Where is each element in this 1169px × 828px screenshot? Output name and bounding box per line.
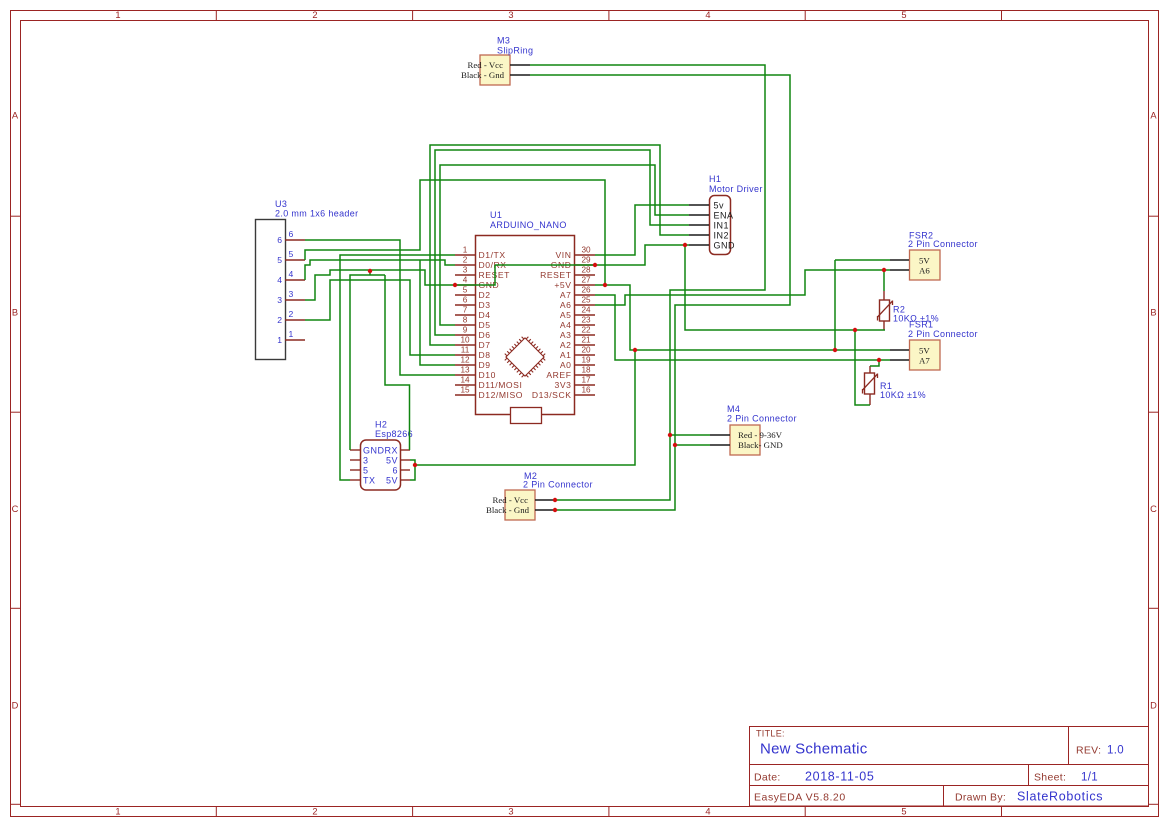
wire M4 pin2 Black [675,444,710,446]
junction M2 pin2 [553,508,557,512]
wire 5V rail down to H2.5V junction [415,350,635,465]
U3 pin 2 [285,319,305,321]
resistor R2 [878,291,893,330]
svg-text:A3: A3 [560,330,572,340]
M2 pin 1 [535,499,555,501]
svg-text:22: 22 [581,326,591,335]
U1 pin 1 D1/TX [455,254,475,256]
U3 pin 4 [285,279,305,281]
svg-text:Esp8266: Esp8266 [375,429,413,439]
svg-text:A1: A1 [560,350,572,360]
svg-text:D8: D8 [479,350,491,360]
wire U1.D6 to H1.IN1 [435,150,689,335]
svg-text:ARDUINO_NANO: ARDUINO_NANO [490,220,567,230]
svg-text:8: 8 [463,316,468,325]
U3 pin 3 [285,299,305,301]
H2 pin 5 left [350,469,360,471]
U1 pin 7 D4 [455,314,475,316]
svg-text:M3: M3 [497,36,510,46]
M3 pin 1 [510,64,530,66]
svg-text:Date:: Date: [754,772,781,784]
connector M2 2 Pin Connector [505,490,535,520]
junction GND branch [368,269,372,273]
U1 pin 4 GND [455,284,475,286]
svg-text:28: 28 [581,266,591,275]
U1 pin 24 A5 [575,314,595,316]
H2 pin 5V right [401,459,411,461]
svg-text:17: 17 [581,376,591,385]
svg-text:3: 3 [508,10,513,20]
svg-text:TITLE:: TITLE: [756,729,785,739]
U1 pin 25 A6 [575,304,595,306]
wire branch to U1.D9 [420,260,455,365]
H1 pin IN2 [689,234,709,236]
U1 pin 28 RESET [575,274,595,276]
wire GND branch jog [369,270,371,275]
svg-text:5: 5 [289,249,294,259]
frame tick [804,11,806,21]
svg-text:1/1: 1/1 [1081,772,1098,784]
svg-text:D10: D10 [479,370,496,380]
svg-text:10KΩ ±1%: 10KΩ ±1% [880,390,926,400]
svg-text:4: 4 [277,275,282,285]
svg-text:9: 9 [463,326,468,335]
junction 5V rail / H2 branch [633,348,637,352]
svg-text:A6: A6 [560,300,572,310]
svg-text:D7: D7 [479,340,491,350]
frame tick [804,807,806,817]
M4 pin 2 [710,444,730,446]
wire U3.6 to U1.D10 [305,240,455,375]
svg-text:B: B [12,307,18,317]
junction A6 / R2 top [882,268,886,272]
H1 pin 5v [689,204,709,206]
U3 pin 1 [285,339,305,341]
frame tick [1001,11,1003,21]
frame tick [608,807,610,817]
M2 pin 2 [535,509,555,511]
svg-text:VIN: VIN [556,250,572,260]
frame tick [11,411,21,413]
U1 pin 8 D5 [455,324,475,326]
svg-text:1: 1 [277,335,282,345]
svg-text:25: 25 [581,296,591,305]
wire M3.Vcc to M4/M2 net [530,65,765,500]
wire U1.D7 to H1.IN2 [430,145,689,345]
svg-text:GND: GND [363,445,385,455]
svg-text:1: 1 [289,329,294,339]
wire R2 top lead green [883,270,885,291]
junction M4 pin1 [668,433,672,437]
U1 pin 5 D2 [455,294,475,296]
svg-text:30: 30 [581,246,591,255]
H2 pin 3 left [350,459,360,461]
svg-text:2 Pin Connector: 2 Pin Connector [523,480,593,490]
wire U3.4 to U1.D0/RX [305,260,455,280]
svg-text:3: 3 [363,455,369,465]
U1 pin 3 RESET [455,274,475,276]
U1 pin 15 D12/MISO [455,394,475,396]
svg-text:A7: A7 [560,290,572,300]
H2 pin GND left [350,449,360,451]
svg-text:D1/TX: D1/TX [479,250,506,260]
title block [750,727,1149,807]
wire H2 5V pins join [410,460,415,480]
svg-text:18: 18 [581,366,591,375]
svg-text:SlateRobotics: SlateRobotics [1017,790,1103,804]
frame tick [1149,803,1159,805]
svg-text:A: A [1150,110,1157,120]
wire U1.+5V to FSR1.5V [595,285,890,350]
svg-text:29: 29 [581,256,591,265]
svg-text:2: 2 [289,309,294,319]
svg-text:D5: D5 [479,320,491,330]
svg-text:A4: A4 [560,320,572,330]
junction GND rail / R1 branch [853,328,857,332]
U1 pin 30 VIN [575,254,595,256]
wire U1.A7 to FSR1.A7 [595,295,890,360]
junction 5V rail / FSR2 branch [833,348,837,352]
FSR2 pin 5V [890,259,909,261]
svg-text:2: 2 [312,806,317,816]
svg-text:14: 14 [460,376,470,385]
svg-text:1.0: 1.0 [1107,745,1124,757]
svg-text:5: 5 [901,806,906,816]
wire GND branch to H2.GND [350,275,385,450]
U1 pin 29 GND [575,264,595,266]
svg-text:4: 4 [463,276,468,285]
svg-text:4: 4 [705,806,710,816]
connector FSR1 2 Pin Connector [910,340,941,370]
U1 pin 10 D7 [455,344,475,346]
svg-text:3: 3 [289,289,294,299]
svg-text:A: A [12,110,19,120]
U1 USB tab [511,408,542,424]
svg-text:6: 6 [392,465,398,475]
svg-text:Sheet:: Sheet: [1034,772,1066,784]
U1 pin 22 A3 [575,334,595,336]
svg-text:D2: D2 [479,290,491,300]
connector U3 2.0 mm 1x6 header [256,220,286,360]
svg-text:11: 11 [461,346,470,355]
wire U1.D1/TX to H2.TX [340,255,455,480]
svg-text:2 Pin Connector: 2 Pin Connector [908,329,978,339]
svg-text:23: 23 [581,316,591,325]
H2 pin TX left [350,479,360,481]
svg-text:13: 13 [460,366,470,375]
U1 pin 21 A2 [575,344,595,346]
H1 pin ENA [689,214,709,216]
wire U1.VIN to H1.5v [595,205,689,255]
junction U1 pin29 [593,263,597,267]
svg-text:A0: A0 [560,360,572,370]
svg-text:3: 3 [508,806,513,816]
svg-text:A6: A6 [919,265,930,275]
svg-text:5: 5 [363,465,369,475]
connector M3 SlipRing [480,55,510,85]
svg-text:H2: H2 [375,420,387,430]
svg-text:Drawn By:: Drawn By: [955,792,1006,804]
junction H1 GND branch [683,243,687,247]
svg-text:IN2: IN2 [714,230,730,240]
svg-text:7: 7 [463,306,468,315]
svg-text:3V3: 3V3 [555,380,572,390]
FSR1 pin A7 [890,359,909,361]
svg-text:Red - 9-36V: Red - 9-36V [738,430,783,440]
svg-text:IN1: IN1 [714,220,730,230]
frame tick [11,803,21,805]
svg-text:19: 19 [581,356,591,365]
frame tick [11,607,21,609]
svg-text:2 Pin Connector: 2 Pin Connector [727,414,797,424]
svg-text:5V: 5V [919,255,930,265]
svg-text:Motor Driver: Motor Driver [709,184,763,194]
svg-text:6: 6 [277,235,282,245]
svg-text:U1: U1 [490,210,502,220]
FSR1 pin 5V [890,349,909,351]
svg-text:RX: RX [384,445,398,455]
svg-text:Red - Vcc: Red - Vcc [492,495,528,505]
svg-text:D9: D9 [479,360,491,370]
svg-text:D: D [1150,700,1157,710]
svg-text:2 Pin Connector: 2 Pin Connector [908,239,978,249]
svg-text:4: 4 [289,269,294,279]
svg-text:Black - Gnd: Black - Gnd [486,505,530,515]
svg-text:D12/MISO: D12/MISO [479,390,524,400]
svg-text:4: 4 [705,10,710,20]
wire U3.5 to +5V rail [305,180,605,285]
svg-text:5: 5 [277,255,282,265]
svg-text:27: 27 [581,276,591,285]
junction H2 5V pins [413,463,417,467]
svg-text:3: 3 [277,295,282,305]
svg-text:5v: 5v [714,200,725,210]
U1 pin 12 D9 [455,364,475,366]
junction +5V / U3.5 [603,283,607,287]
svg-text:2: 2 [312,10,317,20]
svg-text:3: 3 [463,266,468,275]
svg-text:5V: 5V [386,455,398,465]
FSR2 pin A6 [890,269,909,271]
M4 pin 1 [710,434,730,436]
svg-text:15: 15 [460,386,470,395]
svg-text:16: 16 [581,386,591,395]
wire H1.GND branch to R2 bottom [685,245,885,330]
wire U3.2 to U1.D8 [305,280,455,355]
svg-text:Black - Gnd: Black - Gnd [461,70,505,80]
svg-text:+5V: +5V [554,280,571,290]
svg-text:U3: U3 [275,199,287,209]
U1 pin 16 D13/SCK [575,394,595,396]
U1 pin 9 D6 [455,334,475,336]
svg-text:RESET: RESET [540,270,572,280]
svg-text:D11/MOSI: D11/MOSI [479,380,523,390]
wire FSR2.5V pin [835,259,890,261]
wire M4 pin1 Red [670,434,710,436]
wire GND branch to H2.RX [385,275,410,450]
connector FSR2 2 Pin Connector [910,250,941,280]
svg-text:5: 5 [901,10,906,20]
U1 pin 13 D10 [455,374,475,376]
frame tick [215,11,217,21]
svg-text:H1: H1 [709,174,721,184]
frame tick [11,215,21,217]
frame tick [1149,607,1159,609]
frame tick [1149,411,1159,413]
wire FSR2.5V down to 5V rail [834,260,836,350]
U3 pin 5 [285,259,305,261]
svg-text:EasyEDA V5.8.20: EasyEDA V5.8.20 [754,792,846,804]
H1 pin GND [689,244,709,246]
wire U1.GND29 to H1.GND [495,245,689,265]
M3 pin 2 [510,74,530,76]
U1 pin 23 A4 [575,324,595,326]
frame tick [412,11,414,21]
svg-text:5V: 5V [386,475,398,485]
wire U1.A6 to FSR2.A6 [595,270,890,305]
H1 pin IN1 [689,224,709,226]
frame tick [1149,215,1159,217]
U3 pin 6 [285,239,305,241]
H2 pin RX right [401,449,411,451]
wire M3.Gnd to M4/M2 net [530,75,790,510]
svg-text:2.0 mm 1x6 header: 2.0 mm 1x6 header [275,209,359,219]
svg-text:ENA: ENA [714,210,734,220]
frame tick [412,807,414,817]
svg-text:6: 6 [463,296,468,305]
svg-text:D4: D4 [479,310,491,320]
svg-text:2018-11-05: 2018-11-05 [805,770,875,784]
svg-text:10KΩ ±1%: 10KΩ ±1% [893,314,939,324]
wire GND rail to R1 bottom [855,330,870,405]
frame tick [215,807,217,817]
svg-text:SlipRing: SlipRing [497,46,533,56]
svg-text:24: 24 [581,306,591,315]
svg-text:26: 26 [581,286,591,295]
U1 pin 18 AREF [575,374,595,376]
junction A7 / R1 top [877,358,881,362]
wire U3.3 to U1.GND4 [305,270,455,300]
U1 pin 11 D8 [455,354,475,356]
H2 pin 6 right [401,469,411,471]
svg-text:2: 2 [277,315,282,325]
svg-text:D3: D3 [479,300,491,310]
U1 pin 20 A1 [575,354,595,356]
svg-text:20: 20 [581,346,591,355]
H2 pin 5V right [401,479,411,481]
svg-text:AREF: AREF [546,370,571,380]
svg-text:12: 12 [460,356,470,365]
svg-text:M4: M4 [727,404,740,414]
svg-text:REV:: REV: [1076,745,1101,757]
U1 pin 19 A0 [575,364,595,366]
U1 pin 2 D0/RX [455,264,475,266]
connector H1 Motor Driver [710,196,731,255]
svg-text:TX: TX [363,475,376,485]
svg-text:5V: 5V [919,345,930,355]
svg-text:5: 5 [463,286,468,295]
svg-text:B: B [1150,307,1156,317]
svg-text:A5: A5 [560,310,572,320]
svg-text:New Schematic: New Schematic [760,741,868,758]
U1 chip icon (rotated square with pins) [501,333,548,380]
U1 pin 6 D3 [455,304,475,306]
U1 pin 17 3V3 [575,384,595,386]
wire R1 top jog [870,360,879,366]
junction M4 pin2 [673,443,677,447]
IC U1 ARDUINO_NANO body [476,236,575,415]
svg-text:Black- GND: Black- GND [738,440,783,450]
svg-text:D: D [12,700,19,710]
svg-text:1: 1 [115,806,120,816]
wire U1 internal GND4 to GND29 [455,265,495,285]
svg-text:1: 1 [115,10,120,20]
svg-text:D13/SCK: D13/SCK [532,390,572,400]
svg-text:A7: A7 [919,355,930,365]
U1 pin 27 +5V [575,284,595,286]
svg-text:C: C [12,504,19,514]
resistor R1 [863,366,878,405]
connector M4 2 Pin Connector [730,425,760,455]
svg-text:1: 1 [463,246,468,255]
junction U1 pin4 [453,283,457,287]
frame tick [608,11,610,21]
svg-text:21: 21 [581,336,591,345]
svg-text:D6: D6 [479,330,491,340]
svg-text:10: 10 [460,336,470,345]
svg-text:6: 6 [289,229,294,239]
svg-text:C: C [1150,504,1157,514]
U1 pin 26 A7 [575,294,595,296]
frame tick [1001,807,1003,817]
module H2 Esp8266 [361,440,401,490]
svg-text:GND: GND [714,240,736,250]
svg-text:A2: A2 [560,340,572,350]
junction M2 pin1 [553,498,557,502]
U1 pin 14 D11/MOSI [455,384,475,386]
svg-text:2: 2 [463,256,468,265]
svg-text:Red - Vcc: Red - Vcc [467,60,503,70]
wire U1.D5 to H1.ENA [440,165,689,325]
